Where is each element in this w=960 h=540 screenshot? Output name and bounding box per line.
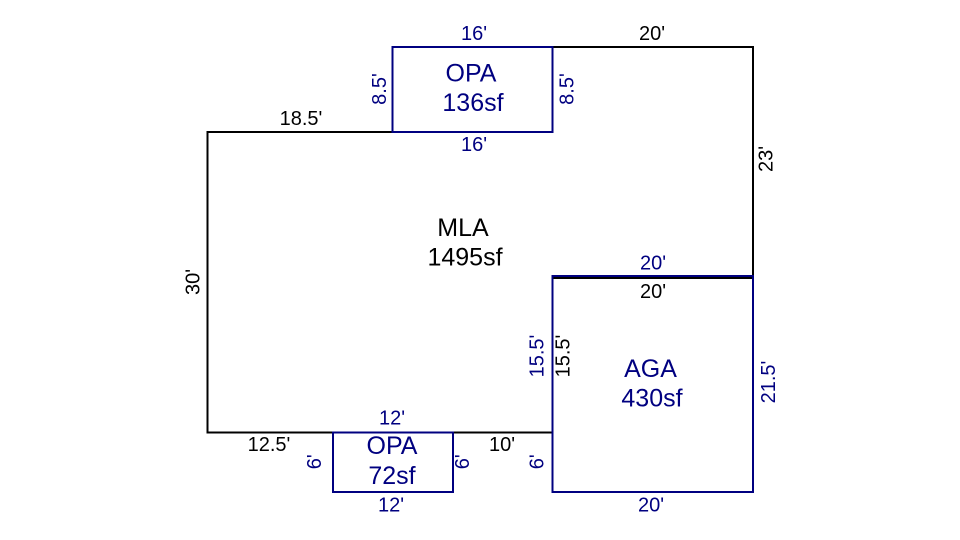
OPA bottom box (blue) [333,433,453,493]
svg-text:6': 6' [452,454,474,469]
MLA outline (black polygon) [208,47,754,433]
svg-text:23': 23' [756,146,778,172]
svg-text:72sf: 72sf [368,462,415,490]
svg-text:430sf: 430sf [621,385,682,413]
svg-text:12': 12' [379,408,405,430]
svg-text:15.5': 15.5' [527,335,549,378]
svg-text:8.5': 8.5' [369,73,391,105]
OPA top box (blue) [393,47,553,132]
svg-text:21.5': 21.5' [758,361,780,404]
svg-text:18.5': 18.5' [280,108,323,130]
svg-text:8.5': 8.5' [557,73,579,105]
svg-text:12': 12' [378,495,404,517]
svg-text:15.5': 15.5' [553,335,575,378]
svg-text:20': 20' [639,23,665,45]
svg-text:MLA: MLA [437,214,489,242]
svg-text:20': 20' [640,253,666,275]
svg-text:6': 6' [304,454,326,469]
svg-text:20': 20' [638,495,664,517]
AGA box (blue) [553,276,754,492]
svg-text:30': 30' [183,269,205,295]
svg-text:OPA: OPA [367,432,418,460]
svg-text:20': 20' [640,281,666,303]
svg-text:12.5': 12.5' [248,434,291,456]
svg-text:136sf: 136sf [442,89,503,117]
svg-text:16': 16' [461,23,487,45]
svg-text:1495sf: 1495sf [427,244,502,272]
svg-text:16': 16' [461,134,487,156]
svg-text:6': 6' [527,454,549,469]
svg-text:AGA: AGA [624,355,677,383]
svg-text:10': 10' [489,434,515,456]
svg-text:OPA: OPA [446,60,497,88]
